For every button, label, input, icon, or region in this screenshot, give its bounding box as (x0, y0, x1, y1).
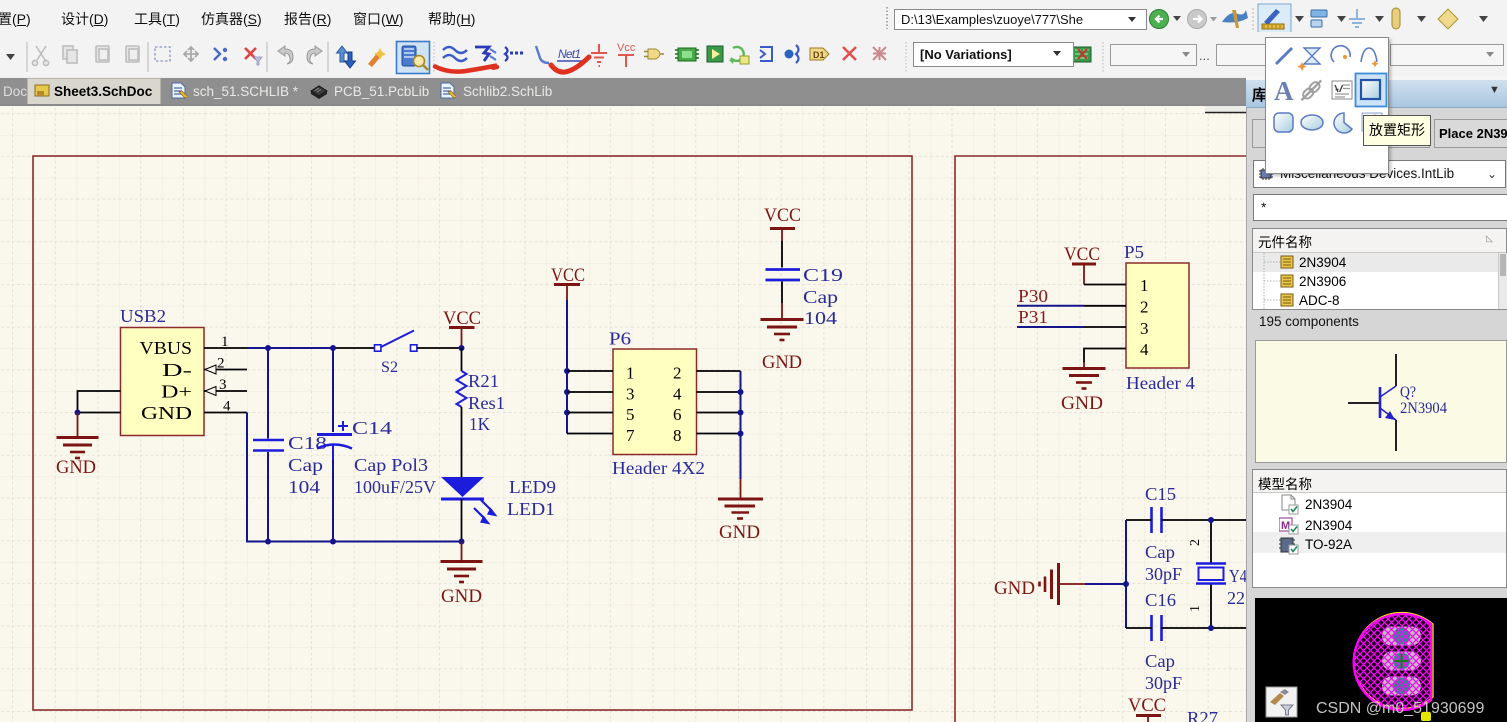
pin 2 of USB2 (204, 356, 247, 375)
back nav button (1150, 10, 1169, 29)
no-variations combo (913, 42, 1074, 67)
3d view button (1266, 687, 1297, 717)
wire VBUS rail (247, 347, 335, 349)
svg-text:3: 3 (1140, 319, 1149, 338)
svg-text:4: 4 (223, 399, 231, 415)
align tool icon (1311, 10, 1327, 17)
svg-text:VCC: VCC (551, 265, 585, 286)
switch S2 (375, 331, 417, 377)
pins right of P6 (697, 371, 741, 434)
junction crystal top (1208, 517, 1214, 523)
svg-text:1K: 1K (469, 414, 490, 434)
svg-text:USB2: USB2 (120, 306, 166, 326)
svg-text:A: A (1274, 76, 1294, 106)
wire GND to branch (1085, 583, 1126, 585)
wire VCC to C19 (781, 241, 783, 268)
capacitor C16 (1145, 590, 1182, 693)
svg-text:C15: C15 (1145, 484, 1176, 504)
bus entry (505, 47, 508, 61)
svg-text:C19: C19 (803, 265, 843, 285)
polyline (536, 46, 549, 63)
pressed drawing-tools button (1258, 4, 1291, 33)
svg-text:3: 3 (626, 385, 635, 404)
power symbol tool icon (1349, 9, 1365, 27)
row 3: rounded rect, ellipse, pie, image (1274, 113, 1293, 132)
resistor R21 (457, 371, 506, 434)
LED LED9 (441, 477, 556, 525)
header P6 (609, 329, 705, 479)
wire VCC node down to resistor (461, 348, 463, 371)
panel header (1246, 80, 1507, 108)
brace dot (785, 50, 794, 59)
cut copy paste (disabled gray) (32, 46, 139, 66)
wire P31 to pin 3 (1084, 326, 1126, 328)
row 1: line, polygon, arc, bezier (1276, 48, 1292, 64)
junction at USB ground (75, 410, 81, 416)
svg-text:4: 4 (1140, 340, 1149, 359)
svg-text:Header 4X2: Header 4X2 (612, 458, 705, 478)
pins left of P6 (567, 371, 613, 434)
svg-text:GND: GND (719, 522, 760, 543)
svg-text:6: 6 (673, 405, 682, 424)
wire bottom rail (247, 413, 462, 542)
wire C18 branch (267, 348, 269, 542)
svg-text:GND: GND (56, 457, 96, 478)
svg-text:D-: D- (162, 360, 192, 380)
svg-text:Cap Pol3: Cap Pol3 (354, 455, 428, 475)
forward nav button (1188, 10, 1207, 29)
footprint TO-92A (1354, 613, 1433, 711)
separator (1252, 8, 1254, 30)
junction crystal bottom (1208, 625, 1214, 631)
svg-text:Cap: Cap (288, 455, 323, 475)
svg-text:8: 8 (673, 426, 682, 445)
capacitor C14 (polarized) (317, 418, 436, 497)
wire resistor to LED (461, 407, 463, 477)
wire LED to ground rail (461, 499, 463, 542)
power VCC left of P6 (551, 265, 585, 300)
capacitor C18 (253, 433, 327, 497)
bus tool (475, 47, 489, 61)
power VCC above R21 (443, 308, 481, 348)
svg-text:3: 3 (219, 377, 227, 393)
svg-text:Cap: Cap (1145, 542, 1175, 562)
junction C14 bottom (330, 539, 336, 545)
svg-text:7: 7 (626, 426, 635, 445)
header P5 (1124, 242, 1195, 393)
ground under C19 (761, 303, 804, 340)
pin 1 of USB2 (204, 334, 247, 350)
junction crystal left (1123, 581, 1129, 587)
junction C14 top (330, 345, 336, 351)
wire right of P6 down (740, 371, 742, 479)
pin 3 of USB2 (204, 377, 247, 396)
svg-text:VCC: VCC (1064, 244, 1100, 265)
ground under P6 (718, 479, 763, 519)
svg-text:R21: R21 (468, 371, 499, 391)
wire C14 branch (332, 348, 334, 542)
svg-text:104: 104 (804, 308, 837, 328)
svg-text:22: 22 (1227, 588, 1245, 608)
svg-text:2: 2 (673, 364, 682, 383)
svg-text:Cap: Cap (803, 287, 838, 307)
D1 tag (810, 48, 829, 60)
svg-text:CSDN @m0_51930699: CSDN @m0_51930699 (1316, 700, 1484, 717)
undo redo (278, 46, 293, 64)
svg-text:Res1: Res1 (468, 393, 505, 413)
svg-text:LED9: LED9 (509, 477, 556, 497)
green chip (678, 48, 696, 61)
wire from D+ and GND to left (78, 391, 121, 413)
svg-text:S2: S2 (381, 359, 398, 376)
wire pin 4 to ground (1084, 349, 1126, 363)
svg-text:100uF/25V: 100uF/25V (354, 477, 436, 497)
wire P30 to pin 2 (1084, 305, 1126, 307)
svg-text:C14: C14 (352, 418, 392, 438)
junction LED bottom (459, 539, 465, 545)
wire C19 to ground (781, 282, 783, 304)
sheet entry (760, 47, 772, 61)
gnd tool (591, 44, 607, 66)
red X (843, 47, 856, 60)
junction P6 pin5 (564, 410, 570, 416)
junction P6 pin8 (738, 431, 744, 437)
PCB doc icon (1072, 47, 1091, 62)
svg-text:5: 5 (626, 405, 635, 424)
svg-text:1: 1 (1140, 276, 1149, 295)
svg-text:Y4: Y4 (1229, 566, 1246, 586)
wire tool (443, 47, 467, 61)
wire switch to VCC node (417, 347, 462, 349)
recycle part (731, 47, 744, 61)
ground under USB2 (57, 413, 99, 459)
svg-text:Header 4: Header 4 (1126, 373, 1195, 393)
svg-text:C16: C16 (1145, 590, 1176, 610)
junction C18 top (265, 345, 271, 351)
highlighted browse-library button (397, 42, 430, 74)
svg-text:VCC: VCC (1128, 695, 1166, 716)
panel buttons row (1252, 119, 1328, 148)
junction at VCC node (459, 345, 465, 351)
connector USB2 (120, 306, 204, 436)
wire VCC to P6 pins column (566, 300, 568, 434)
svg-text:D+: D+ (161, 382, 192, 402)
svg-text:R27: R27 (1187, 708, 1218, 722)
part tool icon (1392, 8, 1400, 29)
svg-text:4: 4 (673, 385, 682, 404)
capacitor C15 (1145, 484, 1182, 584)
ground under LED (441, 542, 483, 583)
junction P6 pin4 (738, 389, 744, 395)
ground left of crystal (rotated) (1040, 563, 1086, 605)
home/cross-probe icon (1222, 10, 1248, 23)
svg-text:Cap: Cap (1145, 651, 1175, 671)
wire to switch (335, 347, 375, 349)
sheet symbol tool icon (1438, 9, 1458, 29)
svg-text:GND: GND (762, 352, 802, 373)
part place (648, 49, 660, 59)
svg-text:1: 1 (626, 364, 635, 383)
svg-text:1: 1 (221, 334, 229, 350)
wire C15 row (1126, 519, 1246, 521)
component list (1252, 228, 1507, 310)
junction P6 pin1 (564, 368, 570, 374)
sheet border (left sheet) (33, 156, 912, 710)
power VCC above C19 (764, 205, 801, 241)
model list (1252, 469, 1507, 588)
svg-text:30pF: 30pF (1145, 564, 1182, 584)
path combo in menu row (884, 6, 890, 30)
svg-text:P5: P5 (1124, 242, 1144, 262)
junction P6 pin3 (564, 389, 570, 395)
svg-text:30pF: 30pF (1145, 673, 1182, 693)
footprint preview (black) (1255, 598, 1507, 722)
svg-text:VCC: VCC (764, 205, 801, 226)
junction P6 pin6 (738, 410, 744, 416)
svg-text:2N3904: 2N3904 (1400, 400, 1447, 417)
library combo (1253, 160, 1506, 188)
svg-text:P6: P6 (609, 329, 631, 349)
svg-text:2: 2 (217, 356, 225, 372)
select / move / filter icons (155, 47, 170, 61)
red annotation scribbles (435, 66, 497, 72)
green box w arrow (707, 46, 723, 62)
power VCC above P5 (1064, 244, 1100, 285)
wand (368, 52, 382, 67)
capacitor C19 (766, 265, 844, 328)
pin 4 of USB2 (204, 399, 247, 415)
sheet paper edge top-right (1205, 106, 1246, 113)
svg-text:VCC: VCC (443, 308, 481, 329)
wire C16 row (1126, 627, 1246, 629)
svg-text:GND: GND (441, 586, 482, 607)
net label P30 (1017, 286, 1084, 306)
crystal Y4 (1188, 539, 1247, 612)
symbol preview (1255, 340, 1507, 463)
wire crystal vertical (1210, 520, 1212, 628)
svg-text:Q?: Q? (1400, 384, 1416, 401)
svg-text:2: 2 (1188, 539, 1203, 546)
sheet border (right sheet) (955, 156, 1246, 722)
svg-text:P30: P30 (1018, 286, 1048, 306)
filter box (1253, 194, 1507, 221)
pin 1 wire of P5 (1084, 284, 1126, 286)
svg-text:LED1: LED1 (507, 499, 555, 519)
transistor Q? (1348, 354, 1447, 451)
junction C18 bottom (265, 539, 271, 545)
svg-text:GND: GND (141, 403, 192, 423)
svg-text:2: 2 (1140, 298, 1149, 317)
svg-text:1: 1 (1188, 605, 1203, 612)
wire left branch vertical (1125, 520, 1127, 628)
svg-text:GND: GND (994, 578, 1035, 599)
net label P31 (1017, 307, 1084, 327)
svg-text:P31: P31 (1018, 307, 1048, 327)
svg-text:GND: GND (1061, 393, 1103, 414)
svg-text:104: 104 (288, 477, 320, 497)
power VCC bottom (1128, 695, 1166, 722)
updown arrows (337, 46, 348, 62)
svg-text:VBUS: VBUS (140, 338, 193, 358)
ground under P5 (1063, 362, 1106, 389)
